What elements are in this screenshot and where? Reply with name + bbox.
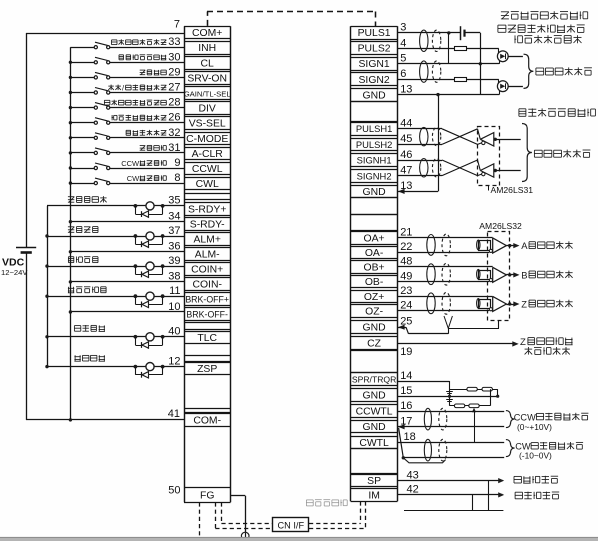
svg-text:PULSH2: PULSH2	[356, 139, 392, 150]
svg-text:GAIN/TL-SEL: GAIN/TL-SEL	[184, 90, 232, 99]
svg-text:13: 13	[400, 83, 412, 95]
svg-text:CWL: CWL	[196, 179, 219, 190]
svg-text:SRV-ON: SRV-ON	[187, 73, 227, 84]
svg-text:SPR/TRQR: SPR/TRQR	[352, 375, 396, 385]
svg-text:46: 46	[400, 149, 412, 161]
svg-text:23: 23	[400, 285, 412, 297]
svg-text:SIGNH2: SIGNH2	[357, 170, 392, 181]
svg-text:37: 37	[168, 225, 180, 237]
svg-text:36: 36	[168, 241, 180, 253]
svg-text:COIN+: COIN+	[191, 265, 223, 276]
svg-text:50: 50	[168, 485, 180, 497]
svg-text:OZ-: OZ-	[365, 306, 383, 317]
svg-text:SP: SP	[367, 476, 381, 487]
svg-text:(0~+10V): (0~+10V)	[517, 422, 552, 432]
svg-text:40: 40	[168, 326, 180, 338]
svg-text:SIGN2: SIGN2	[359, 75, 390, 86]
svg-text:DIV: DIV	[199, 104, 216, 115]
svg-text:S-RDY-: S-RDY-	[190, 219, 225, 230]
svg-text:12: 12	[168, 355, 180, 367]
svg-text:Z: Z	[521, 299, 527, 310]
svg-text:C-MODE: C-MODE	[186, 134, 228, 145]
svg-text:OA-: OA-	[365, 248, 383, 259]
svg-text:VS-SEL: VS-SEL	[189, 119, 226, 130]
svg-text:22: 22	[400, 241, 412, 253]
svg-text:OZ+: OZ+	[364, 292, 385, 303]
svg-text:OB+: OB+	[364, 263, 385, 274]
svg-text:PULS1: PULS1	[358, 28, 391, 39]
svg-text:39: 39	[168, 255, 180, 267]
svg-text:33: 33	[168, 36, 180, 48]
svg-text:GND: GND	[363, 422, 386, 433]
svg-text:COM+: COM+	[192, 28, 222, 39]
svg-text:47: 47	[400, 164, 412, 176]
svg-text:SIGN1: SIGN1	[359, 59, 390, 70]
svg-text:30: 30	[168, 51, 180, 63]
svg-text:21: 21	[400, 226, 412, 238]
svg-text:A-CLR: A-CLR	[192, 149, 224, 160]
svg-text:CWTL: CWTL	[359, 438, 389, 449]
svg-text:4: 4	[400, 37, 406, 49]
svg-text:29: 29	[168, 66, 180, 78]
svg-text:35: 35	[168, 195, 180, 207]
svg-text:OA+: OA+	[364, 233, 385, 244]
svg-text:18: 18	[404, 431, 416, 443]
svg-text:32: 32	[168, 127, 180, 139]
svg-text:6: 6	[400, 68, 406, 80]
svg-text:19: 19	[400, 346, 412, 358]
svg-text:CN I/F: CN I/F	[278, 520, 305, 530]
svg-text:11: 11	[169, 285, 180, 297]
svg-text:26: 26	[168, 112, 180, 124]
svg-text:CL: CL	[201, 58, 215, 69]
svg-text:GND: GND	[363, 391, 386, 402]
svg-text:GND: GND	[363, 323, 386, 334]
svg-text:CW: CW	[127, 174, 140, 183]
svg-text:FG: FG	[200, 490, 214, 501]
svg-text:PULS2: PULS2	[358, 44, 391, 55]
svg-text:COIN-: COIN-	[192, 280, 221, 291]
svg-text:ALM-: ALM-	[195, 250, 220, 261]
svg-text:INH: INH	[198, 43, 216, 54]
svg-text:16: 16	[400, 400, 412, 412]
svg-text:38: 38	[168, 271, 180, 283]
svg-text:44: 44	[400, 118, 412, 130]
svg-text:CCWL: CCWL	[192, 164, 223, 175]
svg-text:15: 15	[400, 385, 412, 397]
svg-text:COM-: COM-	[193, 415, 221, 426]
svg-text:CCWTL: CCWTL	[356, 406, 393, 417]
svg-text:AM26LS31: AM26LS31	[491, 185, 534, 195]
svg-text:B: B	[521, 269, 527, 280]
svg-text:A: A	[521, 240, 528, 251]
svg-text:45: 45	[400, 133, 412, 145]
svg-text:5: 5	[400, 53, 406, 65]
svg-text:34: 34	[168, 211, 180, 223]
svg-text:TLC: TLC	[197, 333, 217, 344]
svg-text:BRK-OFF+: BRK-OFF+	[185, 295, 229, 305]
svg-text:ZSP: ZSP	[197, 364, 217, 375]
svg-text:CZ: CZ	[367, 339, 382, 350]
svg-text:9: 9	[174, 157, 180, 169]
svg-text:S-RDY+: S-RDY+	[188, 204, 226, 215]
svg-text:10: 10	[168, 301, 180, 313]
svg-text:AM26LS32: AM26LS32	[479, 221, 522, 231]
svg-text:CCW: CCW	[121, 159, 140, 168]
svg-text:31: 31	[168, 142, 180, 154]
svg-text:27: 27	[168, 82, 180, 94]
svg-text:OB-: OB-	[365, 277, 383, 288]
svg-text:VDC: VDC	[2, 257, 25, 269]
svg-text:41: 41	[168, 408, 180, 420]
svg-text:(-10~0V): (-10~0V)	[519, 451, 552, 461]
svg-text:GND: GND	[363, 90, 386, 101]
svg-text:GND: GND	[363, 187, 386, 198]
svg-text:8: 8	[174, 172, 180, 184]
svg-text:SIGNH1: SIGNH1	[357, 155, 392, 166]
svg-text:14: 14	[400, 370, 412, 382]
svg-text:12~24V: 12~24V	[1, 268, 28, 277]
svg-text:7: 7	[174, 19, 180, 31]
svg-text:PULSH1: PULSH1	[356, 123, 392, 134]
svg-text:IM: IM	[368, 490, 380, 501]
svg-text:ALM+: ALM+	[193, 234, 220, 245]
svg-text:24: 24	[400, 299, 412, 311]
svg-text:28: 28	[168, 97, 180, 109]
svg-text:43: 43	[407, 469, 419, 481]
svg-text:49: 49	[400, 270, 412, 282]
svg-text:Z: Z	[520, 337, 526, 348]
svg-text:BRK-OFF-: BRK-OFF-	[186, 310, 228, 320]
